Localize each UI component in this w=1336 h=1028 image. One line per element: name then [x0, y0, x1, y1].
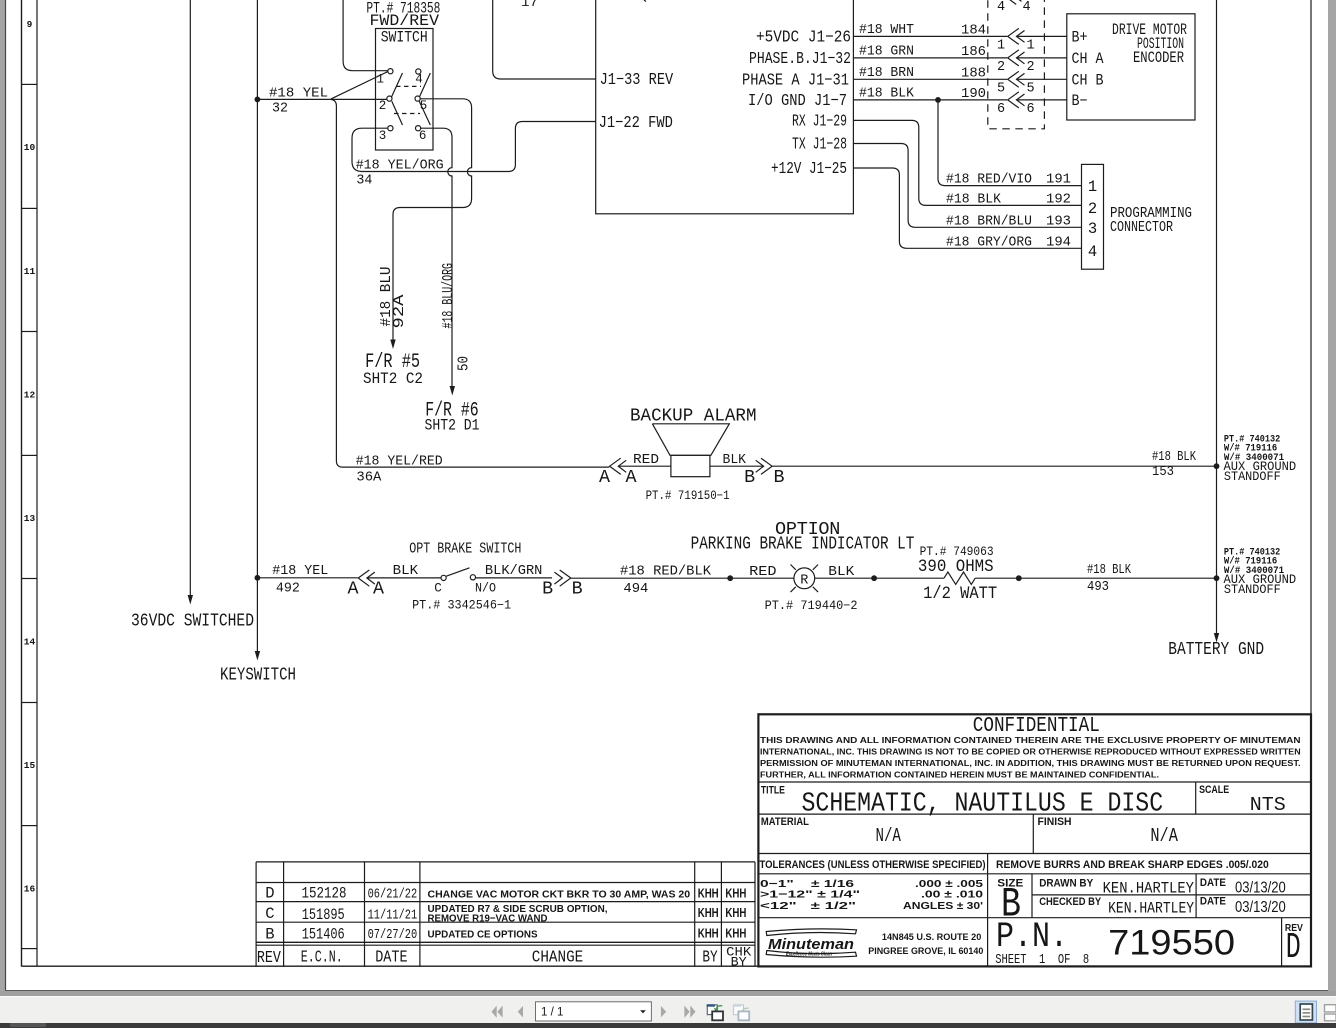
svg-text:KEYSWITCH: KEYSWITCH: [220, 666, 296, 686]
svg-text:186: 186: [961, 45, 986, 60]
single page view icon (active): [1295, 1001, 1316, 1023]
svg-text:BLK: BLK: [828, 565, 855, 580]
svg-text:REV: REV: [257, 949, 282, 968]
prev view icon: [707, 1004, 723, 1020]
first page button: [492, 1006, 503, 1018]
svg-text:#18 BRN/BLU: #18 BRN/BLU: [946, 214, 1032, 229]
wire pin6 to F/R #6: [421, 128, 455, 395]
left gray margin: [0, 0, 5, 991]
svg-text:CHANGE: CHANGE: [532, 948, 584, 967]
svg-text:DRAWN BY: DRAWN BY: [1039, 878, 1094, 890]
last page button: [684, 1006, 695, 1018]
svg-text:DATE: DATE: [1200, 877, 1226, 889]
svg-text:RED: RED: [749, 565, 777, 580]
svg-text:#18 BRN: #18 BRN: [859, 66, 914, 81]
svg-text:190: 190: [961, 87, 986, 102]
svg-text:152128: 152128: [302, 885, 347, 903]
prev page button: [518, 1006, 523, 1017]
svg-text:06/21/22: 06/21/22: [368, 887, 418, 903]
svg-text:KHH: KHH: [698, 926, 719, 941]
svg-text:2: 2: [1026, 60, 1034, 75]
drive motor encoder U: [1067, 14, 1195, 120]
svg-text:191: 191: [1046, 173, 1071, 188]
svg-text:4: 4: [997, 0, 1005, 15]
svg-text:11: 11: [24, 266, 36, 277]
svg-text:493: 493: [1087, 580, 1109, 595]
svg-text:11/11/21: 11/11/21: [368, 909, 418, 924]
svg-text:THIS DRAWING AND ALL INFORMATI: THIS DRAWING AND ALL INFORMATION CONTAIN…: [760, 735, 1301, 745]
svg-text:KHH: KHH: [698, 905, 719, 920]
switch pin 2: [387, 96, 392, 101]
svg-text:B: B: [744, 468, 755, 488]
svg-text:390 OHMS: 390 OHMS: [918, 557, 994, 577]
wire 194 #18 GRY/ORG from +12V: [853, 168, 1081, 250]
svg-text:N/O: N/O: [475, 582, 496, 596]
svg-text:PHASE.B.J1−32: PHASE.B.J1−32: [749, 49, 851, 68]
revision row B: [265, 925, 746, 943]
svg-text:ANGLES ± 30': ANGLES ± 30': [903, 900, 983, 912]
svg-text:D: D: [265, 885, 274, 903]
svg-text:3: 3: [379, 129, 387, 143]
confidential text: [760, 714, 1301, 780]
connector B-B brake switch: [542, 570, 583, 600]
svg-text:D: D: [1286, 927, 1301, 968]
svg-text:34: 34: [356, 174, 372, 189]
svg-text:#18 YEL/ORG: #18 YEL/ORG: [356, 159, 444, 174]
svg-text:151406: 151406: [302, 925, 345, 943]
switch FWD/REV labels: [366, 0, 440, 30]
svg-text:BY: BY: [702, 948, 717, 967]
svg-text:1: 1: [1088, 178, 1097, 196]
svg-text:PINGREE GROVE, IL 60140: PINGREE GROVE, IL 60140: [868, 946, 983, 957]
svg-text:CONNECTOR: CONNECTOR: [1110, 219, 1173, 236]
svg-text:PERMISSION OF MINUTEMAN INTERN: PERMISSION OF MINUTEMAN INTERNATIONAL, I…: [760, 758, 1301, 768]
switch levers: [392, 73, 431, 125]
svg-text:.00 ± .010: .00 ± .010: [921, 889, 983, 901]
svg-text:TITLE: TITLE: [761, 785, 785, 797]
connector A-A left of alarm: [599, 458, 637, 488]
svg-text:B: B: [572, 580, 583, 600]
part number cell: [995, 916, 1235, 968]
svg-text:#18 YEL: #18 YEL: [272, 564, 328, 579]
resistor 390 OHMS 1/2 WATT: [918, 557, 997, 604]
svg-text:C: C: [434, 582, 442, 596]
svg-text:J1−22 FWD: J1−22 FWD: [599, 113, 673, 132]
svg-text:BACKUP ALARM: BACKUP ALARM: [630, 405, 757, 426]
svg-text:B−: B−: [1072, 92, 1088, 110]
svg-text:R: R: [800, 574, 808, 589]
controller J1 box: [596, 0, 854, 214]
svg-text:492: 492: [276, 582, 300, 597]
svg-text:15: 15: [24, 760, 36, 771]
next page button: [661, 1006, 666, 1017]
svg-text:#18 RED/BLK: #18 RED/BLK: [620, 565, 712, 580]
svg-text:A: A: [348, 580, 359, 600]
lamp R parking brake indicator: [765, 565, 858, 614]
svg-text:C: C: [265, 905, 274, 923]
tolerances row: [760, 859, 1269, 871]
svg-text:PARKING BRAKE INDICATOR LT: PARKING BRAKE INDICATOR LT: [691, 534, 915, 555]
node F/R #6: [425, 400, 480, 435]
svg-text:FWD/REV: FWD/REV: [370, 12, 440, 30]
svg-text:#18 GRY/ORG: #18 GRY/ORG: [946, 235, 1032, 250]
svg-text:OPT BRAKE SWITCH: OPT BRAKE SWITCH: [409, 541, 521, 558]
svg-text:SHT2 D1: SHT2 D1: [425, 417, 480, 435]
wire 192 #18 BLK from RX: [853, 120, 1081, 207]
svg-text:#18 BLK: #18 BLK: [1087, 563, 1132, 578]
svg-text:STANDOFF: STANDOFF: [1224, 469, 1281, 484]
wire 186 #18 GRN: [853, 45, 1066, 75]
checked by cell: [1039, 896, 1286, 918]
svg-text:1: 1: [997, 38, 1005, 53]
switch pin 4: [416, 69, 421, 74]
svg-text:RED: RED: [633, 453, 659, 468]
svg-text:N/A: N/A: [1150, 825, 1178, 847]
svg-text:4: 4: [1088, 243, 1097, 261]
svg-text:03/13/20: 03/13/20: [1235, 879, 1286, 896]
next view icon (disabled): [733, 1004, 749, 1020]
svg-text:184: 184: [961, 24, 986, 39]
wire #18 YEL 32: [257, 72, 609, 468]
wire 191 #18 RED/VIO: [938, 100, 1082, 188]
label #18 BLU 92A rotated: [378, 267, 408, 329]
svg-text:#18 BLK: #18 BLK: [859, 87, 915, 102]
label #18 BLU/ORG 50 rotated: [440, 263, 472, 371]
svg-text:SCALE: SCALE: [1199, 784, 1229, 796]
brake switch S: [367, 564, 552, 613]
svg-text:SWITCH: SWITCH: [381, 29, 428, 47]
svg-text:KHH: KHH: [698, 886, 719, 901]
svg-text:BLK: BLK: [393, 564, 419, 579]
pins 4 4 top remnant: [997, 0, 1031, 15]
svg-text:151895: 151895: [302, 906, 345, 924]
svg-text:2: 2: [997, 60, 1005, 75]
svg-text:4: 4: [1022, 0, 1030, 15]
svg-text:CH B: CH B: [1072, 72, 1104, 90]
revision header row: [257, 945, 752, 970]
svg-text:KHH: KHH: [725, 905, 746, 920]
switch pin 1: [388, 69, 393, 74]
svg-text:P.N.: P.N.: [996, 916, 1068, 957]
svg-text:6: 6: [419, 129, 427, 143]
svg-text:03/13/20: 03/13/20: [1235, 899, 1286, 916]
svg-text:4: 4: [415, 72, 423, 86]
svg-text:1: 1: [376, 72, 384, 86]
svg-text:07/27/20: 07/27/20: [368, 927, 418, 943]
drawn by cell: [1039, 877, 1286, 897]
wire 17 to J1-33: [493, 0, 596, 79]
svg-text:MATERIAL: MATERIAL: [761, 816, 809, 828]
programming connector J: [1082, 164, 1193, 269]
svg-text:BLK/GRN: BLK/GRN: [485, 564, 543, 579]
wire keyswitch vertical: [220, 0, 296, 686]
switch FWD/REV box: [376, 29, 434, 151]
svg-text:STANDOFF: STANDOFF: [1224, 582, 1281, 597]
svg-text:FINISH: FINISH: [1038, 816, 1072, 828]
svg-text:17: 17: [521, 0, 538, 10]
svg-text:2: 2: [1088, 200, 1097, 218]
wire #18 BLK 153 to aux ground: [772, 450, 1216, 480]
svg-text:5: 5: [1026, 81, 1034, 96]
svg-text:#18 BLK: #18 BLK: [1152, 450, 1197, 465]
backup alarm speaker: [618, 424, 747, 503]
svg-text:NTS: NTS: [1250, 794, 1286, 816]
node F/R #5: [363, 351, 423, 388]
svg-text:153: 153: [1152, 465, 1174, 480]
size cell: [997, 878, 1023, 929]
svg-text:10: 10: [24, 142, 36, 153]
svg-text:TX J1−28: TX J1−28: [792, 135, 847, 154]
svg-text:50: 50: [455, 356, 472, 371]
svg-text:Excellence Meets Clean: Excellence Meets Clean: [786, 952, 832, 958]
svg-text:CHANGE VAC MOTOR CKT BKR TO 30: CHANGE VAC MOTOR CKT BKR TO 30 AMP, WAS …: [428, 888, 691, 900]
dashed connector box: [988, 0, 1045, 129]
wire #18 YEL 492: [257, 564, 357, 597]
svg-text:14N845 U.S. ROUTE 20: 14N845 U.S. ROUTE 20: [882, 932, 981, 943]
revision row C: [265, 903, 746, 924]
svg-text:PT.# 719440−2: PT.# 719440−2: [765, 599, 858, 613]
svg-text:14: 14: [24, 637, 36, 648]
svg-text:PT.# 3342546−1: PT.# 3342546−1: [412, 599, 511, 613]
wire 193 #18 BRN/BLU from TX: [853, 144, 1081, 230]
svg-text:CHECKED BY: CHECKED BY: [1039, 896, 1102, 908]
material finish row: [761, 816, 1178, 847]
revision row D: [265, 885, 746, 903]
aux ground standoff upper: [1224, 434, 1297, 484]
minuteman logo: [766, 929, 983, 958]
svg-text:1/2 WATT: 1/2 WATT: [923, 584, 997, 604]
svg-text:E.C.N.: E.C.N.: [301, 948, 343, 967]
svg-text:6: 6: [997, 102, 1005, 117]
aux ground standoff lower: [1224, 547, 1297, 597]
svg-text:J1−33 REV: J1−33 REV: [600, 70, 674, 89]
svg-text:92A: 92A: [391, 295, 408, 329]
svg-text:BY: BY: [731, 955, 747, 970]
wire #18 BLK 493 to aux ground: [975, 563, 1216, 595]
tolerance values: [760, 878, 983, 912]
wire BLK to resistor: [815, 565, 944, 581]
svg-text:REMOVE BURRS AND BREAK SHARP E: REMOVE BURRS AND BREAK SHARP EDGES .005/…: [996, 859, 1269, 871]
svg-text:DATE: DATE: [1200, 896, 1226, 908]
svg-text:3: 3: [1088, 220, 1097, 238]
svg-text:DATE: DATE: [375, 948, 407, 967]
svg-text:#18 RED/VIO: #18 RED/VIO: [946, 173, 1032, 188]
two page view icon (cut off): [1325, 1005, 1336, 1021]
svg-text:#18 GRN: #18 GRN: [859, 45, 914, 60]
switch pin 3: [388, 126, 393, 131]
svg-text:SHEET 1 OF 8: SHEET 1 OF 8: [995, 952, 1089, 968]
svg-text:KEN.HARTLEY: KEN.HARTLEY: [1103, 879, 1195, 897]
wire 36VDC switched vertical: [131, 0, 254, 632]
switch mechanical dashed links: [394, 86, 421, 113]
svg-text:6: 6: [1026, 102, 1034, 117]
svg-text:194: 194: [1046, 235, 1071, 250]
svg-text:719550: 719550: [1108, 923, 1235, 963]
svg-text:KEN.HARTLEY: KEN.HARTLEY: [1108, 900, 1195, 918]
svg-text:32: 32: [272, 102, 288, 117]
svg-text:A: A: [373, 580, 384, 600]
svg-text:PHASE A J1−31: PHASE A J1−31: [742, 70, 849, 89]
wire 190 #18 BLK: [853, 87, 1066, 117]
svg-text:UPDATED CE OPTIONS: UPDATED CE OPTIONS: [428, 928, 538, 940]
svg-text:INTERNATIONAL, INC. THIS DRAWI: INTERNATIONAL, INC. THIS DRAWING IS NOT …: [760, 746, 1301, 756]
svg-text:#18 YEL: #18 YEL: [269, 87, 328, 102]
svg-text:13: 13: [24, 513, 36, 524]
top-right tiny cut text remnant: [644, 0, 646, 2]
svg-text:KHH: KHH: [725, 926, 746, 941]
svg-text:N/A: N/A: [876, 825, 902, 847]
svg-text:+5VDC J1−26: +5VDC J1−26: [756, 27, 851, 46]
svg-text:KHH: KHH: [725, 886, 746, 901]
svg-text:TOLERANCES (UNLESS OTHERWISE S: TOLERANCES (UNLESS OTHERWISE SPECIFIED): [760, 859, 986, 871]
svg-text:16: 16: [24, 884, 36, 895]
battery gnd vertical wire: [1168, 0, 1264, 660]
title row: [761, 784, 1286, 819]
svg-text:I/O GND J1−7: I/O GND J1−7: [748, 91, 847, 110]
switch pin 6: [416, 126, 421, 131]
svg-text:>1−12" ± 1/4": >1−12" ± 1/4": [760, 889, 860, 901]
svg-text:SHT2 C2: SHT2 C2: [363, 370, 423, 388]
svg-text:36VDC SWITCHED: 36VDC SWITCHED: [131, 612, 254, 632]
svg-text:188: 188: [961, 66, 986, 81]
wire #18 RED/BLK 494: [571, 565, 794, 598]
svg-text:CH A: CH A: [1072, 50, 1105, 68]
rev cell: [1285, 923, 1303, 968]
svg-text:#18 BLU/ORG: #18 BLU/ORG: [440, 263, 457, 329]
svg-text:REMOVE R19−VAC WAND: REMOVE R19−VAC WAND: [428, 913, 548, 925]
svg-text:12: 12: [24, 390, 36, 401]
title block frame: [758, 714, 1311, 966]
svg-text:193: 193: [1046, 214, 1071, 229]
svg-text:1 / 1: 1 / 1: [541, 1007, 563, 1019]
switch pin 5: [415, 96, 420, 101]
svg-text:B+: B+: [1072, 29, 1088, 47]
svg-text:2: 2: [379, 99, 387, 113]
svg-text:BATTERY GND: BATTERY GND: [1168, 640, 1264, 660]
svg-text:192: 192: [1046, 192, 1071, 207]
svg-text:36A: 36A: [356, 471, 382, 486]
svg-text:<12" ± 1/2": <12" ± 1/2": [760, 900, 856, 912]
svg-text:#18 WHT: #18 WHT: [859, 23, 914, 38]
svg-text:5: 5: [997, 81, 1005, 96]
svg-text:494: 494: [623, 582, 648, 597]
svg-text:#18 BLK: #18 BLK: [946, 192, 1002, 207]
wire pin5 to F/R #5: [390, 99, 471, 349]
svg-text:9: 9: [27, 19, 33, 30]
svg-text:ENCODER: ENCODER: [1133, 49, 1184, 67]
svg-text:+12V J1−25: +12V J1−25: [771, 159, 847, 178]
page bottom edge: [5, 990, 1328, 992]
svg-text:#18 YEL/RED: #18 YEL/RED: [356, 455, 443, 470]
revision table frame: [256, 862, 755, 967]
svg-text:A: A: [626, 468, 637, 488]
svg-text:A: A: [599, 468, 610, 488]
svg-text:1: 1: [1026, 38, 1034, 53]
connector A-A brake switch: [348, 570, 385, 600]
right gray margin: [1328, 0, 1336, 991]
wire #18 YEL/RED 36A labels: [356, 455, 443, 486]
wire pin3 #18 YEL/ORG 34 to J1-22: [352, 122, 596, 189]
connector B-B right of alarm: [710, 458, 785, 488]
wire 184 #18 WHT: [853, 23, 1066, 53]
svg-text:FURTHER, ALL INFORMATION CONTA: FURTHER, ALL INFORMATION CONTAINED HEREI…: [760, 770, 1159, 780]
svg-text:B: B: [542, 580, 553, 600]
svg-text:RX J1−29: RX J1−29: [792, 111, 847, 130]
wire 188 #18 BRN: [853, 66, 1066, 96]
svg-text:B: B: [265, 925, 274, 943]
page number field: [536, 1002, 652, 1021]
svg-text:PT.# 719150−1: PT.# 719150−1: [646, 489, 730, 503]
label OPTION parking brake: [691, 519, 994, 559]
wire top to pin1: [343, 0, 388, 71]
svg-text:SCHEMATIC, NAUTILUS E DISC: SCHEMATIC, NAUTILUS E DISC: [802, 789, 1164, 819]
svg-text:B: B: [774, 468, 785, 488]
